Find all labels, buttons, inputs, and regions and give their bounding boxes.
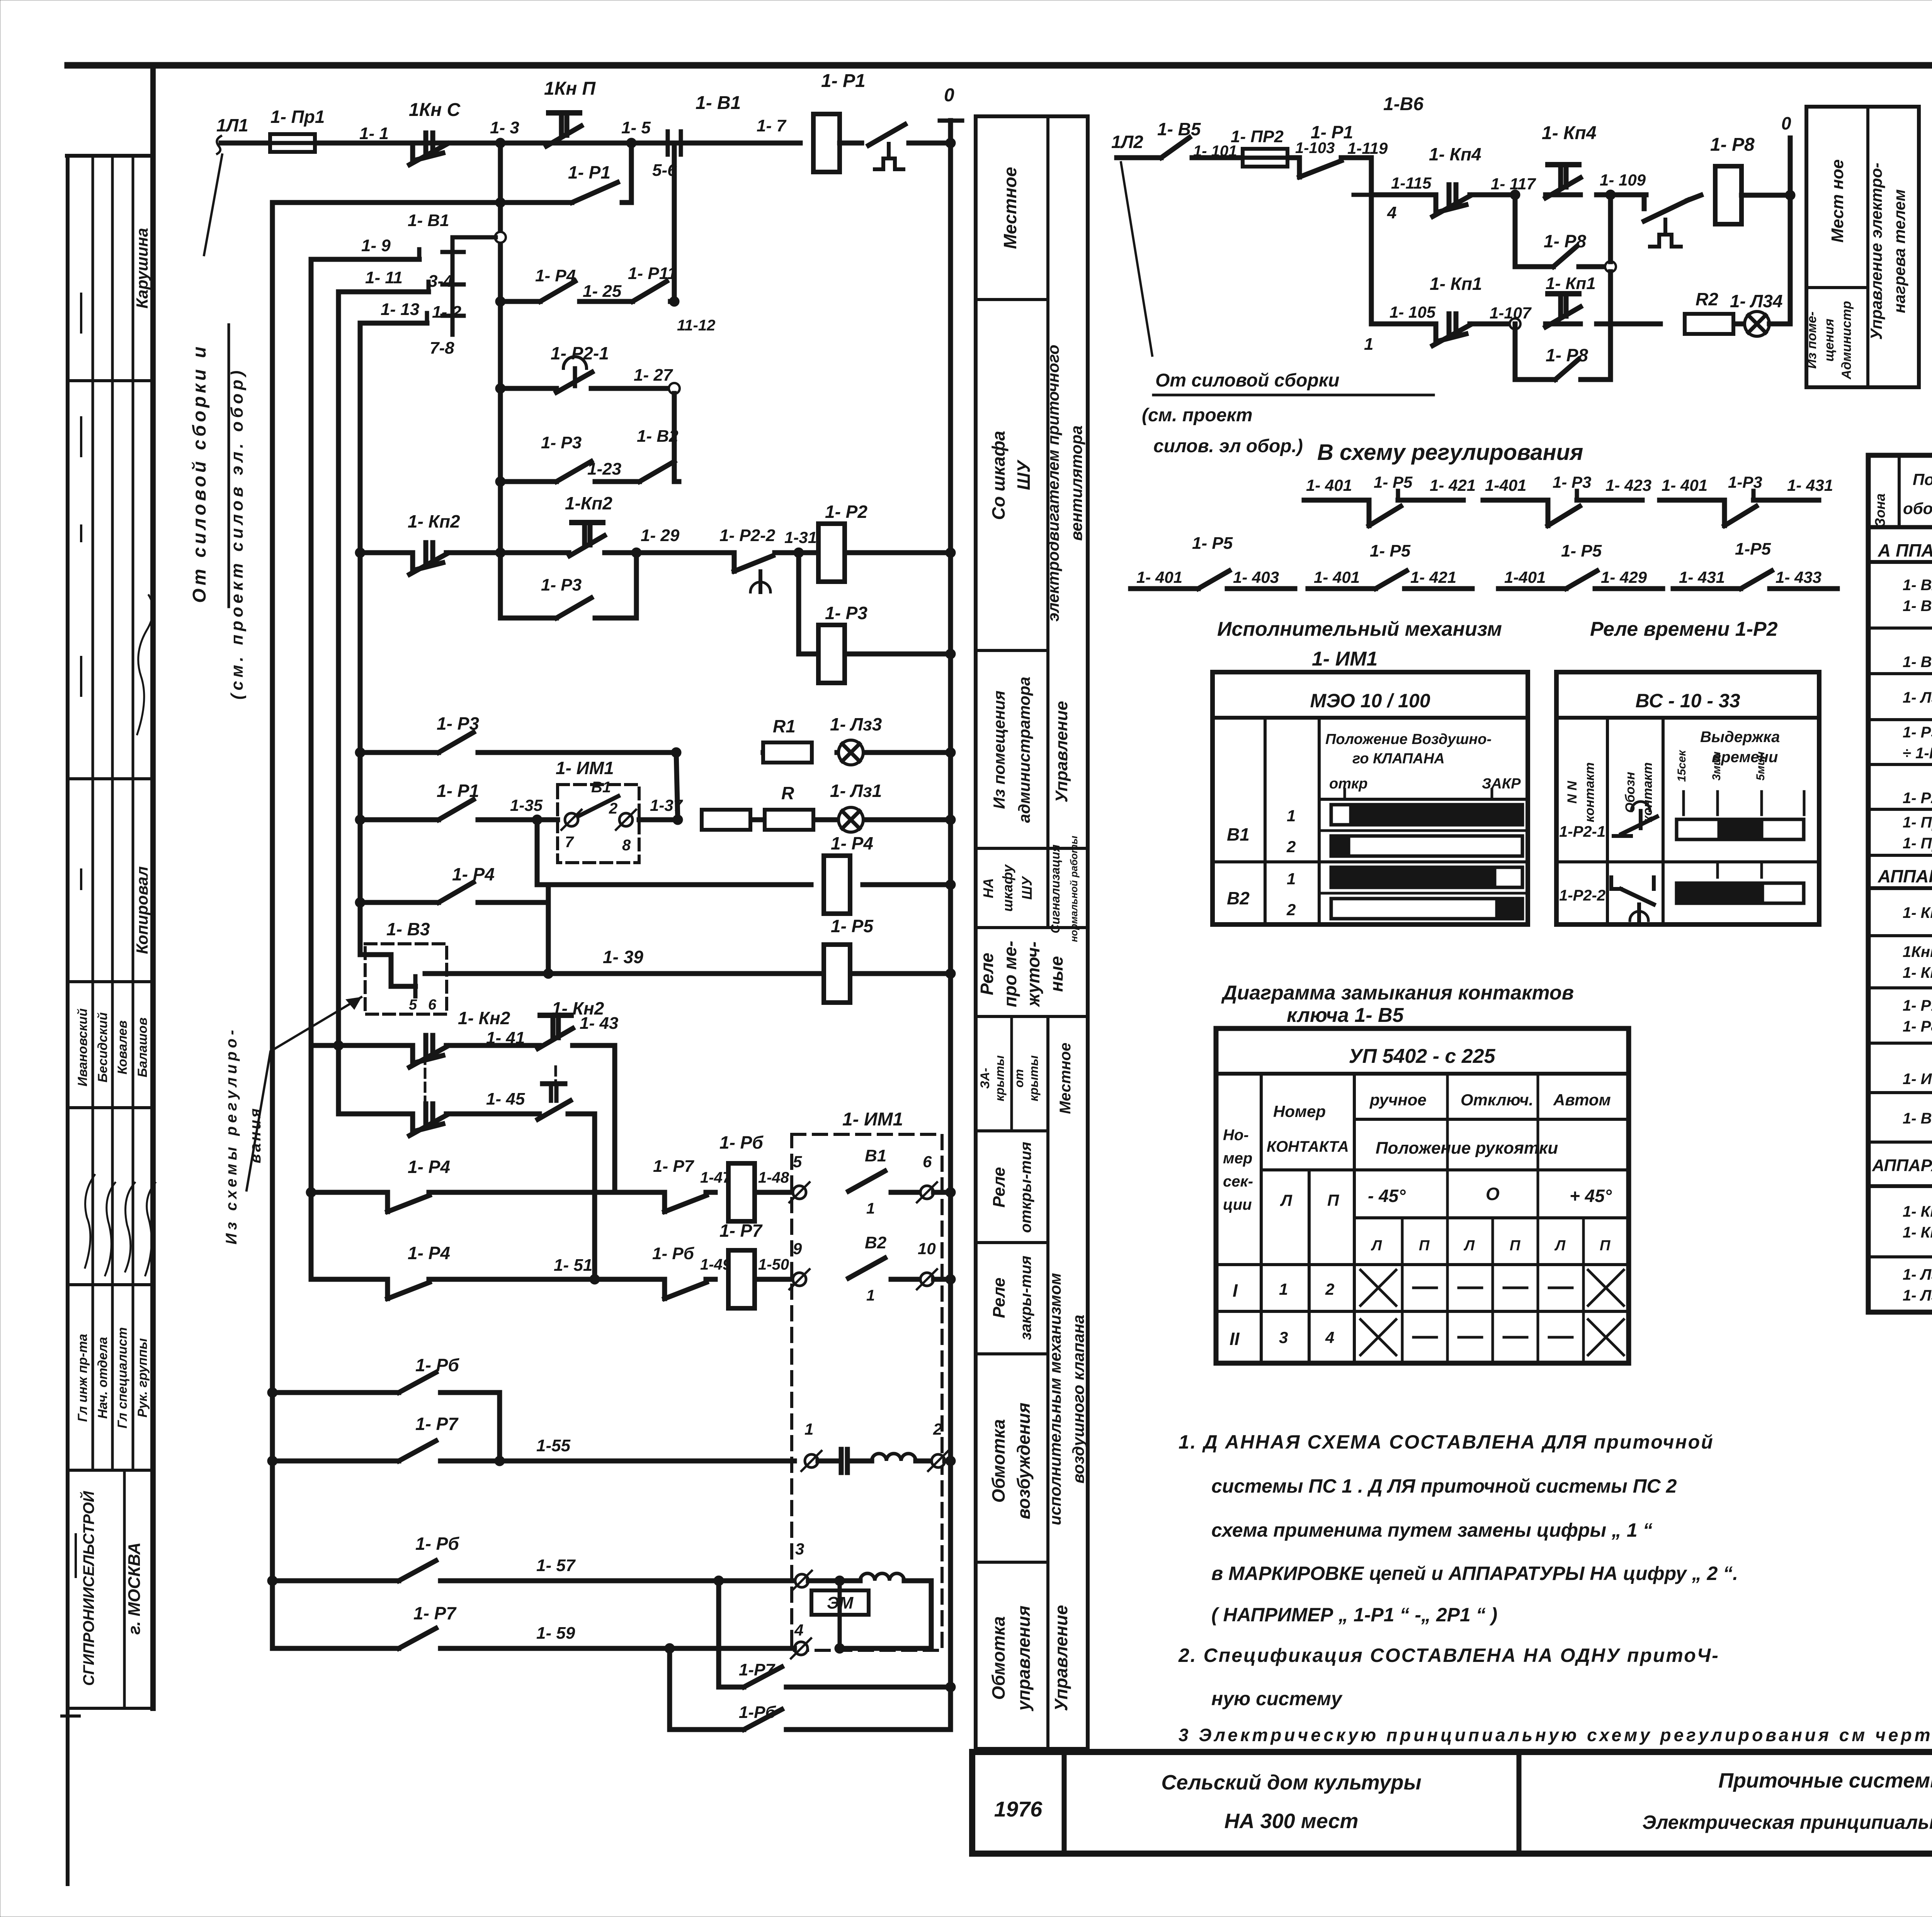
contact 1-Pb bottom: [744, 1709, 782, 1730]
svg-text:Сельский дом культуры: Сельский дом культуры: [1161, 1771, 1421, 1794]
spec header row: [1868, 525, 1932, 529]
svg-text:N N: N N: [1565, 780, 1580, 804]
svg-text:Обмотка: Обмотка: [988, 1419, 1009, 1503]
svg-text:В1: В1: [1227, 824, 1250, 844]
node rung55 railA: [267, 1456, 277, 1466]
svg-text:1- Р2-2: 1- Р2-2: [719, 526, 776, 545]
svg-text:1- 403: 1- 403: [1233, 568, 1279, 586]
svg-text:ВС - 10 - 33: ВС - 10 - 33: [1635, 690, 1740, 712]
terminal 8: [619, 813, 633, 826]
rung 1-9 end tick: [417, 249, 422, 259]
wire branch 1-P8 lower: [1515, 324, 1555, 380]
svg-text:0: 0: [1781, 113, 1791, 133]
relay coil 1-P2: [818, 524, 845, 582]
node 11-12: [669, 296, 679, 306]
svg-text:1- Лз 3: 1- Лз 3: [1903, 1266, 1932, 1283]
svg-text:1- ИМ1: 1- ИМ1: [1312, 648, 1378, 670]
MEO bar row1: [1331, 805, 1522, 825]
svg-text:щения: щения: [1822, 318, 1837, 361]
terminal 6: [920, 1186, 934, 1199]
svg-text:1- Лз 4: 1- Лз 4: [1903, 1287, 1932, 1304]
VS contact symbol 1-P2-1: [1631, 802, 1650, 811]
svg-text:вентилятора: вентилятора: [1067, 426, 1085, 541]
wire railD jog into V3 box: [360, 902, 391, 986]
svg-text:1-Р7: 1-Р7: [739, 1660, 776, 1679]
key contact 7-8 tick: [442, 314, 464, 318]
wire rung 1-P4 coil: [360, 900, 439, 905]
svg-text:Номер: Номер: [1273, 1102, 1326, 1120]
wire rung 1-P3 lamp: [360, 750, 439, 755]
wire rung1 top rail 1L1: [221, 141, 800, 146]
svg-text:2: 2: [1286, 901, 1296, 919]
node heater bus top: [1785, 190, 1795, 200]
wire rail C vertical: [336, 292, 341, 1045]
node em top: [835, 1576, 845, 1586]
svg-text:1- Р1: 1- Р1: [821, 71, 866, 91]
resistor unlabeled: [702, 810, 750, 830]
svg-text:1- ИМ1: 1- ИМ1: [556, 758, 614, 778]
contact 1-P8 upper: [1553, 247, 1577, 267]
svg-text:Местное: Местное: [1057, 1043, 1074, 1114]
svg-text:вания: вания: [247, 1106, 264, 1163]
svg-text:7: 7: [565, 834, 574, 851]
relay coil 1-P4: [824, 856, 850, 914]
svg-text:2: 2: [609, 800, 617, 817]
UP table frame: [1216, 1028, 1629, 1363]
node rung 1-23 busL: [495, 477, 505, 487]
actuator box 1-IM1 dashed large: [792, 1134, 942, 1650]
svg-text:1-401: 1-401: [1504, 568, 1546, 586]
spec table frame: [1868, 455, 1932, 1312]
node 0 top of ladder right bus: [946, 138, 956, 148]
node rung P1 railD: [355, 815, 365, 825]
wire rung 1-27: [500, 386, 556, 391]
svg-text:R1: R1: [773, 716, 796, 736]
solenoid EM box: [811, 1590, 869, 1615]
MEO table frame: [1213, 672, 1528, 924]
terminal 5: [793, 1186, 806, 1199]
svg-text:Ивановский: Ивановский: [75, 1008, 90, 1086]
terminal 2 excitation: [932, 1454, 945, 1468]
svg-text:1- В2: 1- В2: [1903, 577, 1932, 594]
svg-text:Реле: Реле: [977, 953, 997, 995]
relay coil 1-P8: [1715, 166, 1742, 224]
svg-text:крыты: крыты: [993, 1056, 1007, 1102]
stamp column grid: [67, 154, 153, 158]
svg-text:5: 5: [793, 1153, 802, 1171]
breaker contact 1-P8 manual: [1644, 200, 1688, 221]
stamp margin dash-dot marks: [80, 294, 82, 332]
stamp signatures scribbles: [85, 1175, 95, 1268]
svg-text:1- Пр1: 1- Пр1: [270, 107, 325, 127]
node rung39 x1419: [543, 969, 553, 979]
svg-text:1- Р4: 1- Р4: [408, 1157, 450, 1177]
wire em loop: [846, 1581, 931, 1648]
svg-text:1- 41: 1- 41: [486, 1028, 525, 1047]
svg-text:1- Р7: 1- Р7: [415, 1414, 459, 1434]
circle node 1-27 right: [669, 383, 680, 394]
svg-text:÷ 1-Р7: ÷ 1-Р7: [1903, 745, 1932, 762]
svg-text:го КЛАПАНА: го КЛАПАНА: [1352, 751, 1445, 767]
svg-text:Карушина: Карушина: [133, 228, 151, 309]
svg-text:1. Д АННАЯ СХЕМА СОСТАВЛ: 1. Д АННАЯ СХЕМА СОСТАВЛЕНА ДЛЯ приточно…: [1179, 1431, 1714, 1453]
svg-text:1- Кп1: 1- Кп1: [1903, 1203, 1932, 1220]
svg-text:1- Лз 1: 1- Лз 1: [1903, 689, 1932, 706]
svg-text:2: 2: [1286, 838, 1296, 856]
nc contact group 1 (1-401 1-P5 1-421): [1304, 498, 1369, 503]
svg-text:1- Р5: 1- Р5: [1374, 473, 1413, 491]
svg-text:1- Р3÷: 1- Р3÷: [1903, 724, 1932, 741]
svg-text:1- Р7: 1- Р7: [413, 1603, 457, 1623]
node rung Kp2 busL: [495, 548, 505, 558]
node rung Pb railA: [267, 1388, 277, 1398]
wire start squiggle: [217, 136, 221, 154]
breaker contact after 1-P1: [840, 141, 862, 146]
svg-text:1-48: 1-48: [758, 1169, 789, 1186]
svg-text:1Л2: 1Л2: [1111, 132, 1143, 152]
svg-text:1- Кп4: 1- Кп4: [1903, 964, 1932, 981]
node coil P3 bus0: [946, 649, 956, 659]
wire rung 1-57: [272, 1578, 399, 1583]
svg-text:Со шкафа: Со шкафа: [988, 431, 1009, 520]
svg-text:1- Кп2: 1- Кп2: [1903, 1224, 1932, 1241]
svg-text:1- 431: 1- 431: [1679, 568, 1725, 586]
node rung open railB: [306, 1187, 316, 1197]
pushbutton 1-Kp2 NC: [413, 553, 443, 570]
svg-text:1- В3: 1- В3: [386, 919, 430, 939]
pushbutton 1-Kp4 NO: [1548, 162, 1579, 167]
relay coil 1-P1: [813, 114, 840, 172]
svg-text:Бесидский: Бесидский: [95, 1012, 110, 1083]
svg-text:электродвигателем приточного: электродвигателем приточного: [1044, 345, 1062, 621]
svg-text:1- Р5: 1- Р5: [1192, 534, 1233, 553]
svg-text:1- В2: 1- В2: [637, 427, 679, 446]
svg-text:1- В1: 1- В1: [1903, 654, 1932, 671]
svg-text:1- Кп4: 1- Кп4: [1429, 144, 1481, 164]
svg-text:1-401: 1-401: [1485, 476, 1526, 494]
wire rung close relay (1-51): [311, 1277, 386, 1282]
svg-text:1- 27: 1- 27: [634, 366, 673, 385]
svg-text:Л: Л: [1371, 1238, 1382, 1254]
svg-text:1- 59: 1- 59: [536, 1624, 575, 1643]
svg-text:1- Р3: 1- Р3: [1553, 473, 1591, 491]
pushbutton 1KnS (NC): [413, 143, 443, 161]
wire 1-35 down: [537, 820, 811, 885]
wire rung 1-Pb excitation branch: [272, 1390, 399, 1395]
time contact 1-P2-1: [563, 357, 587, 368]
svg-text:Л: Л: [1463, 1238, 1475, 1254]
svg-text:1- Р2: 1- Р2: [825, 502, 867, 522]
svg-text:1- 401: 1- 401: [1662, 476, 1708, 494]
switch blade V1 7-2-8: [578, 796, 618, 816]
svg-text:1- 51: 1- 51: [554, 1256, 592, 1275]
svg-text:1- 7: 1- 7: [757, 116, 787, 135]
node 1-3: [495, 138, 505, 148]
terminal 3: [795, 1574, 808, 1587]
svg-text:1- 9: 1- 9: [361, 236, 391, 255]
contact 1-P3 rung23: [556, 461, 591, 482]
wire 0-bus right rail of ladder: [948, 121, 953, 1730]
svg-text:в МАРКИРОВКЕ цепей и АППА: в МАРКИРОВКЕ цепей и АППАРАТУРЫ НА цифру…: [1211, 1563, 1738, 1584]
svg-text:О: О: [1486, 1184, 1500, 1204]
svg-text:1: 1: [866, 1200, 875, 1217]
svg-text:нагрева телем: нагрева телем: [1890, 189, 1908, 313]
svg-text:ЗА-: ЗА-: [978, 1068, 992, 1089]
pushbutton 1-Kp2 NO: [572, 520, 603, 525]
svg-text:ключа 1- В5: ключа 1- В5: [1287, 1004, 1404, 1027]
svg-text:3-4: 3-4: [428, 272, 453, 291]
svg-text:1- Р3: 1- Р3: [541, 575, 582, 594]
svg-text:НА: НА: [980, 878, 996, 898]
pushbutton small NO rung45: [543, 1081, 565, 1086]
mechanical link dashed rung41: [424, 1055, 427, 1106]
wire rail D vertical: [358, 323, 363, 955]
svg-text:( НАПРИМЕР „ 1-Р1 “ -„ 2Р1: ( НАПРИМЕР „ 1-Р1 “ -„ 2Р1 “ ): [1211, 1604, 1497, 1626]
svg-text:Мест ное: Мест ное: [1828, 159, 1847, 242]
svg-text:Исполнительный механизм: Исполнительный механизм: [1217, 618, 1502, 640]
wire 1-V6 switch vertical: [1369, 158, 1374, 324]
svg-text:закры-тия: закры-тия: [1017, 1256, 1034, 1340]
key 1-V1 contact 5-6 ticks: [666, 131, 670, 155]
contact 1-P4 rung open: [385, 1192, 390, 1212]
svg-text:АППАРАТУРА , УСТАНАВЛИВАЕМАЯ: АППАРАТУРА , УСТАНАВЛИВАЕМАЯ В ВентКАмер…: [1878, 866, 1932, 886]
contact 1-V5: [1161, 138, 1189, 158]
wire coil P8 to bus: [1742, 193, 1790, 198]
svg-text:1- Р1: 1- Р1: [1311, 122, 1353, 142]
VS bar row2: [1677, 883, 1804, 903]
svg-text:МЭО 10 / 100: МЭО 10 / 100: [1310, 690, 1430, 712]
svg-text:1- Кп1: 1- Кп1: [1430, 274, 1482, 294]
contact 1-P3 lamp rung: [439, 732, 473, 752]
node 1-31: [794, 548, 804, 558]
svg-text:1- Р3: 1- Р3: [541, 433, 582, 452]
pushbutton 1-Kn2 NC rung45: [413, 1114, 443, 1132]
svg-text:1- Р2-1: 1- Р2-1: [551, 343, 609, 363]
svg-text:мер: мер: [1223, 1150, 1252, 1167]
svg-text:схема применима путем за: схема применима путем замены цифры „ 1 “: [1211, 1519, 1653, 1541]
svg-text:воздушного клапана: воздушного клапана: [1069, 1315, 1087, 1484]
relay coil 1-P3: [818, 625, 845, 683]
UP grid horizontals: [1354, 1118, 1629, 1121]
svg-text:1- Р7: 1- Р7: [653, 1157, 695, 1176]
wire rung 1-13: [360, 321, 427, 326]
svg-text:1- В5: 1- В5: [1157, 119, 1201, 139]
svg-text:1- В1: 1- В1: [408, 211, 449, 230]
svg-text:8: 8: [622, 837, 631, 854]
svg-text:2: 2: [933, 1420, 942, 1438]
svg-text:1- Р8: 1- Р8: [1903, 1018, 1932, 1035]
svg-text:1- 29: 1- 29: [641, 526, 680, 545]
contact 1-P8 lower: [1555, 359, 1578, 380]
svg-text:2. Спецификация СОСТАВЛЕНА: 2. Спецификация СОСТАВЛЕНА НА ОДНУ прито…: [1178, 1645, 1719, 1666]
svg-text:1: 1: [1364, 335, 1373, 354]
key box 1-V3 dashed: [365, 944, 447, 1014]
relay coil 1-P5: [824, 945, 850, 1003]
key contact 1-2 tick: [442, 283, 464, 287]
wire coil 1-P3 branch: [799, 553, 818, 654]
contact 1-P4 rung close: [385, 1279, 390, 1299]
svg-text:обозн: обозн: [1903, 499, 1932, 518]
svg-text:1- Р4: 1- Р4: [452, 864, 495, 884]
svg-text:шкафу: шкафу: [1000, 864, 1015, 912]
svg-text:1- 431: 1- 431: [1787, 476, 1833, 494]
svg-text:Реле: Реле: [990, 1277, 1009, 1318]
svg-text:1- Л34: 1- Л34: [1730, 291, 1782, 311]
svg-text:крыты: крыты: [1027, 1056, 1041, 1102]
contact 1-P7 rung59: [399, 1628, 436, 1648]
svg-text:1Л1: 1Л1: [216, 115, 248, 135]
svg-text:Ковалев: Ковалев: [115, 1020, 130, 1074]
svg-text:ручное: ручное: [1369, 1091, 1427, 1109]
svg-text:ную систему: ную систему: [1211, 1688, 1343, 1709]
svg-text:Управление: Управление: [1052, 701, 1071, 803]
svg-text:системы ПС 1 . Д ЛЯ прит: системы ПС 1 . Д ЛЯ приточной системы ПС…: [1211, 1475, 1677, 1497]
svg-text:1- 57: 1- 57: [536, 1556, 576, 1575]
svg-text:1-115: 1-115: [1391, 174, 1432, 192]
node 1-37: [673, 815, 683, 825]
svg-text:II: II: [1230, 1329, 1240, 1349]
switch blade V1: [849, 1171, 885, 1191]
VS tick marks row2: [1716, 862, 1719, 877]
capacitor excitation: [839, 1449, 844, 1473]
svg-text:1-35: 1-35: [510, 796, 543, 814]
svg-text:1- Кн2: 1- Кн2: [1903, 904, 1932, 921]
terminal 9: [793, 1273, 806, 1286]
contact 1-V2: [639, 461, 674, 482]
svg-text:Управление электро-: Управление электро-: [1867, 163, 1885, 340]
svg-text:Гл специалист: Гл специалист: [115, 1327, 130, 1428]
svg-text:6: 6: [428, 997, 437, 1013]
fuse 1-PR2: [1243, 149, 1287, 167]
svg-text:От силовой сборки: От силовой сборки: [1155, 370, 1339, 391]
contact 1-Pb rung57: [399, 1561, 436, 1581]
node rung Kp2 bus0: [946, 548, 956, 558]
svg-text:1Кнп-1ннс: 1Кнп-1ннс: [1903, 943, 1932, 960]
resistor R2: [1685, 314, 1733, 334]
svg-text:1- 109: 1- 109: [1600, 171, 1646, 189]
svg-text:5мин: 5мин: [1754, 751, 1767, 780]
contact 1-P1 heater: [1297, 158, 1302, 177]
svg-text:1- Р2: 1- Р2: [1903, 790, 1932, 807]
svg-text:1-Рб: 1-Рб: [739, 1703, 776, 1722]
wire 1L2 top: [1117, 155, 1161, 160]
node 1-109: [1605, 190, 1616, 200]
wire link 1947-2121: [676, 752, 678, 820]
zone column ladder grid: [974, 116, 978, 1749]
wire rail A vertical: [270, 203, 275, 1648]
callout line ot silovoj sborki middle: [1121, 162, 1152, 356]
svg-text:1- Пр2: 1- Пр2: [1903, 835, 1932, 852]
wire self-hold rung 1-P1: [272, 200, 572, 205]
svg-text:3 Электрическую принципиал: 3 Электрическую принципиальную схему рег…: [1179, 1725, 1932, 1745]
node 1-117: [1510, 190, 1520, 200]
lamp 1-L34: [1745, 312, 1769, 336]
callout arrow from regulation scheme to V3: [247, 997, 361, 1190]
contact 1-P1 lamp rung: [439, 800, 473, 820]
svg-text:3: 3: [795, 1540, 804, 1558]
svg-text:4: 4: [794, 1621, 803, 1639]
svg-text:1- 429: 1- 429: [1601, 568, 1647, 586]
VS table frame: [1556, 672, 1819, 924]
svg-text:1- 39: 1- 39: [603, 947, 643, 967]
svg-text:1Кн П: 1Кн П: [544, 78, 596, 99]
contact 1-P11: [633, 281, 667, 301]
contact 1-P1 self-hold: [572, 182, 617, 203]
svg-text:5: 5: [409, 997, 417, 1013]
wire rung 1-25: [500, 299, 540, 304]
MEO header ticks: [1344, 789, 1346, 799]
svg-text:1-31: 1-31: [784, 528, 817, 546]
svg-text:1- Кн2: 1- Кн2: [458, 1008, 510, 1028]
svg-text:ШУ: ШУ: [1014, 459, 1034, 490]
node selfhold on busL: [495, 197, 505, 208]
mechanical link dashed rung45: [554, 1067, 557, 1098]
sheet frame outer left border: [66, 156, 70, 1884]
no contact group 1 (1-401/1-403): [1131, 586, 1198, 591]
node rung close bus0: [946, 1274, 956, 1284]
lamp 1-Lz1: [838, 807, 863, 832]
svg-text:- 45°: - 45°: [1368, 1186, 1406, 1206]
svg-text:+ 45°: + 45°: [1570, 1186, 1612, 1206]
svg-text:1- Р5: 1- Р5: [1561, 541, 1602, 560]
circle node 1-107: [1510, 318, 1520, 329]
svg-text:1-В6: 1-В6: [1383, 94, 1423, 114]
svg-text:1-Р2-2: 1-Р2-2: [1559, 887, 1605, 904]
wire heater rung2: [1371, 322, 1436, 327]
node 1-51: [590, 1274, 600, 1284]
VS tick marks row1: [1682, 792, 1685, 815]
node em bottom: [835, 1643, 845, 1653]
pushbutton 1KnP (NO): [549, 110, 580, 116]
svg-text:1- Р4: 1- Р4: [831, 833, 873, 853]
rung 1-11 end tick: [427, 282, 431, 292]
svg-text:1- 3: 1- 3: [490, 118, 519, 137]
wire 1-P3 bypass loop: [500, 553, 556, 618]
svg-text:В1: В1: [591, 779, 611, 796]
svg-text:1- Р1: 1- Р1: [568, 162, 611, 182]
svg-text:В2: В2: [865, 1233, 887, 1252]
svg-text:Из схемы регулиро-: Из схемы регулиро-: [223, 1027, 240, 1245]
fuse 1-Pr1: [270, 134, 315, 152]
svg-text:1976: 1976: [994, 1797, 1043, 1821]
node rung57 joint: [714, 1576, 724, 1586]
svg-text:1: 1: [1287, 870, 1296, 888]
svg-text:Зона: Зона: [1872, 494, 1888, 527]
terminal 7: [565, 813, 578, 826]
svg-text:Электрическая принципиальная: Электрическая принципиальная схема управ…: [1642, 1811, 1932, 1833]
node 1-5: [626, 138, 636, 148]
svg-text:1- Р4: 1- Р4: [408, 1243, 450, 1263]
svg-text:откр: откр: [1329, 776, 1367, 792]
svg-text:Диаграмма замыкания контак: Диаграмма замыкания контактов: [1221, 982, 1574, 1004]
svg-text:Управление: Управление: [1051, 1605, 1071, 1711]
sheet frame inner left border: [150, 65, 156, 1708]
svg-text:П: П: [1510, 1238, 1520, 1254]
svg-text:Поз: Поз: [1913, 470, 1932, 489]
wire em vertical: [838, 1581, 842, 1648]
contact 5-6 inside V3: [391, 984, 415, 989]
svg-text:1- Р1: 1- Р1: [437, 781, 479, 801]
svg-text:исполнительным механизмом: исполнительным механизмом: [1046, 1273, 1064, 1525]
wire heater 0-bus: [1788, 138, 1793, 324]
svg-text:1-50: 1-50: [758, 1256, 789, 1273]
wire vertical 1419 to rung39: [546, 885, 551, 974]
svg-text:возбуждения: возбуждения: [1014, 1403, 1034, 1519]
wire rung 1-23: [500, 479, 556, 484]
svg-text:4: 4: [1387, 203, 1396, 222]
svg-text:1-Кп2: 1-Кп2: [565, 493, 612, 513]
wire rung open relay (1-47): [311, 1190, 386, 1195]
